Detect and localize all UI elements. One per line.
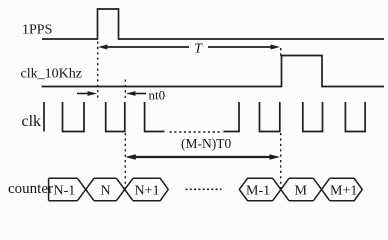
counter bus left group N-1, N, N+1 <box>49 178 169 200</box>
svg-text:nt0: nt0 <box>149 88 166 103</box>
svg-text:M-1: M-1 <box>246 184 270 199</box>
hexagon N-1 <box>49 178 78 200</box>
hexagon N+1 top/bottom and right point <box>133 178 168 200</box>
clk low pulse 2 <box>106 102 125 132</box>
dotted line at 1PPS rising edge <box>97 42 99 102</box>
hexagon N top/bottom <box>94 178 116 200</box>
transition X between M-1 and M <box>273 178 289 200</box>
dotted line at clk_10Khz rising edge, upper segment <box>280 48 282 56</box>
hexagon M+1 top/bottom and right point <box>330 178 363 200</box>
dotted line at clk rising edge (nt0 right bound), upper segment <box>124 80 126 102</box>
transition X between M and M+1 <box>313 178 329 200</box>
clk low pulse 4 <box>260 102 280 132</box>
svg-text:M+1: M+1 <box>330 184 357 199</box>
dotted line at clk_10Khz rising edge, lower segment to counter transition <box>280 133 282 190</box>
svg-text:T: T <box>194 40 203 55</box>
svg-text:M: M <box>295 184 308 199</box>
clk low pulse 6 <box>345 102 365 132</box>
clk_10Khz waveform <box>42 56 385 87</box>
svg-text:clk_10Khz: clk_10Khz <box>21 67 82 82</box>
dotted continuation between N+1 and M-1 <box>186 188 222 190</box>
counter bus right group M-1, M, M+1 <box>239 178 362 200</box>
1PPS waveform <box>42 9 384 39</box>
clk waveform start edge <box>43 102 45 132</box>
svg-text:(M-N)T0: (M-N)T0 <box>181 136 231 151</box>
(M-N)T0 measurement arrow <box>125 154 280 160</box>
svg-text:1PPS: 1PPS <box>22 23 52 38</box>
svg-text:N-1: N-1 <box>54 184 76 199</box>
svg-text:N: N <box>101 184 111 199</box>
clk wide low pulse with time break <box>145 102 165 132</box>
hexagon M-1 with left point <box>239 178 273 200</box>
transition X between N-1 and N <box>77 178 94 200</box>
hexagon M top/bottom <box>289 178 313 200</box>
svg-text:clk: clk <box>22 113 42 130</box>
nt0 left-pointing arrow <box>126 91 146 96</box>
transition X between N and N+1 <box>116 178 133 200</box>
svg-text:counter: counter <box>8 181 53 197</box>
clk low pulse 1 <box>63 102 85 132</box>
dotted line at clk rising edge, lower segment to counter transition <box>124 133 126 190</box>
clk low pulse 5 <box>303 102 323 132</box>
nt0 right-pointing arrow <box>77 91 97 96</box>
T measurement arrow <box>98 45 280 50</box>
svg-text:N+1: N+1 <box>135 184 160 199</box>
